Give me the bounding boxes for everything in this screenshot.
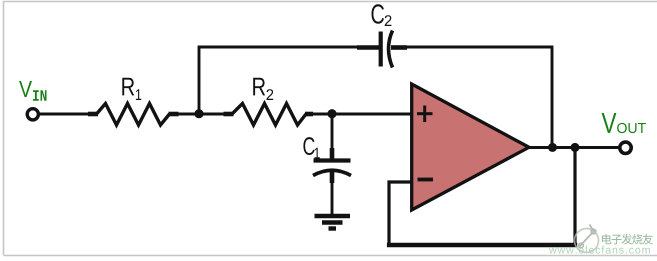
wire node A to R2	[199, 113, 225, 116]
junction dot output / C2 rail	[548, 143, 557, 152]
capacitor C2	[357, 31, 407, 68]
label C1	[303, 137, 319, 158]
op-amp minus input marking	[418, 178, 434, 182]
wire C2 right to output node	[406, 47, 552, 148]
wire top rail to C2 left	[198, 46, 365, 49]
terminal VOUT	[620, 142, 631, 153]
node A junction dot	[194, 109, 203, 118]
label VIN	[19, 81, 46, 101]
wire R1 to node A	[179, 113, 200, 116]
resistor R2	[224, 104, 314, 126]
wire feedback from output to minus input	[389, 148, 575, 245]
op-amp U1	[412, 84, 529, 210]
wire node B down to C1	[331, 114, 334, 150]
label R1	[122, 78, 141, 100]
wire VIN to R1	[39, 113, 89, 116]
terminal VIN	[27, 109, 38, 120]
wire C1 to ground	[331, 182, 334, 215]
node B junction dot	[327, 109, 336, 118]
op-amp plus input marking	[417, 106, 433, 123]
label C2	[372, 4, 392, 26]
watermark logo	[549, 225, 653, 254]
wire op-amp output	[529, 146, 620, 149]
junction dot output / feedback	[571, 143, 580, 152]
label VOUT	[602, 113, 646, 133]
ground	[315, 216, 351, 229]
capacitor C1	[313, 148, 351, 183]
label R2	[253, 78, 273, 100]
resistor R1	[88, 104, 179, 126]
wire node B to op-amp plus input	[332, 113, 413, 116]
wire R2 to node B	[313, 113, 332, 116]
wire node A up to top rail	[198, 47, 201, 114]
